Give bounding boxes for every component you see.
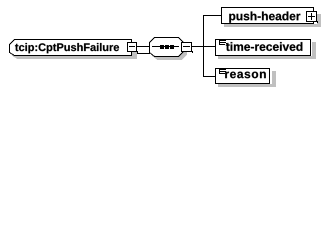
wire from sequence collapse box to junction and on to time-received [192, 46, 215, 47]
sequence icon square 2 [165, 45, 169, 49]
shadow line from collapse box to sequence chamfer [137, 53, 150, 54]
text-content icon of reason [219, 68, 227, 74]
wire branch to reason [204, 76, 215, 77]
label tcip:CptPushFailure [15, 43, 119, 53]
sequence compositor octagon [150, 38, 184, 57]
collapse box of sequence [182, 43, 192, 52]
shadow of element box push-header (bottom band) [224, 24, 321, 27]
sequence icon square 3 [170, 45, 174, 49]
sequence icon square 1 [160, 45, 164, 49]
element box tcip:CptPushFailure [10, 40, 132, 56]
wire junction vertical line [203, 15, 204, 77]
plus sign vertical [311, 13, 312, 20]
minus sign [183, 46, 190, 47]
shadow of element box tcip:CptPushFailure [13, 43, 137, 59]
label push-header [229, 12, 300, 23]
expand box of push-header [307, 12, 317, 22]
minus sign [129, 46, 135, 47]
element box push-header [222, 8, 314, 24]
label reason [225, 72, 266, 79]
element box reason [216, 69, 270, 84]
plus sign horizontal [308, 16, 315, 17]
shadow of element box reason (bottom band) [218, 84, 276, 87]
shadow of expand box of push-header (right band) [317, 14, 321, 27]
sequence icon horizontal line [152, 46, 179, 47]
shadow tick under collapse box of sequence [192, 51, 193, 53]
collapse box of tcip:CptPushFailure [128, 43, 137, 52]
shadow of sequence compositor [153, 41, 187, 60]
wire branch to push-header [204, 15, 221, 16]
label time-received [226, 42, 302, 51]
element box time-received [216, 40, 311, 56]
shadow of element box time-received (right band) [312, 42, 316, 56]
shadow of element box time-received (bottom band) [218, 56, 316, 59]
shadow of element box reason (right band) [272, 71, 276, 84]
wire from tcip:CptPushFailure collapse box to sequence [137, 46, 149, 47]
shadow tick under expand box of push-header [317, 21, 318, 23]
text-content icon of time-received [219, 39, 227, 45]
shadow tick under collapse box of tcip:CptPushFailure [137, 51, 138, 53]
